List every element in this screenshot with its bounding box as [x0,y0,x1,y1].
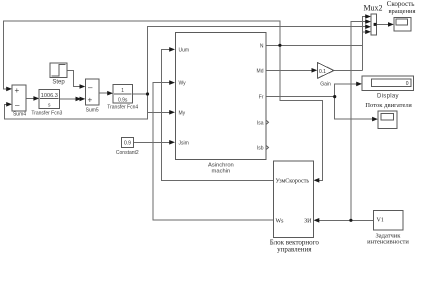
svg-text:0.1: 0.1 [319,69,326,75]
svg-text:управления: управления [277,246,312,254]
svg-text:machin: machin [212,169,231,175]
svg-text:Isb: Isb [257,146,264,152]
wire Mux2 to scope [377,23,389,25]
svg-text:Uum: Uum [179,48,190,54]
sum block Sum4 [12,85,26,111]
transfer fcn TF3 [39,90,60,109]
svg-text:Ws: Ws [276,219,285,225]
svg-text:+: + [15,86,20,95]
scope speed [394,17,411,31]
wire Md to Gain [266,69,312,71]
unconnected out port Isa [266,120,269,125]
machine port labels [179,48,190,147]
svg-text:вращения: вращения [388,8,415,15]
wire Uzm output to Uum [161,49,273,180]
svg-text:1: 1 [121,88,124,94]
wire Constant2 to Jsim [134,141,172,143]
svg-text:+: + [88,96,93,105]
wire TF4 output down-branch to Sum4 minus and My [4,94,147,119]
wire Fr branch down to flux scope [335,97,373,120]
display block [362,76,414,90]
svg-text:–: – [15,101,20,110]
block labels tiny [13,80,399,175]
svg-text:Constant2: Constant2 [116,150,139,156]
svg-text:Gain: Gain [320,82,331,88]
wire branch to mux in4 [362,31,367,33]
sum signs Sum4 [15,83,94,110]
wire Fr output [266,96,335,98]
svg-text:0.9s: 0.9s [118,98,128,104]
svg-text:Fr: Fr [259,95,264,101]
constant block Constant2 [122,137,134,147]
svg-text:интенсивности: интенсивности [367,239,409,246]
vector control block [274,161,314,238]
svg-text:Display: Display [377,94,399,100]
svg-text:0: 0 [406,81,409,87]
svg-text:Step: Step [52,80,65,86]
unconnected out port Isb [266,145,269,150]
wire N to speed input of vector block [280,45,323,180]
wire TransferFcn3 to Sum5 plus [60,98,82,100]
svg-text:–: – [88,83,93,92]
transfer fcn values [41,88,128,109]
wire Ws output to Wy [153,83,274,220]
cyrillic captions [270,0,416,254]
svg-text:Transfer Fcn4: Transfer Fcn4 [107,105,138,111]
svg-text:Скорость: Скорость [387,0,415,8]
ramp block V1 [373,210,403,230]
wire branch to My input [148,111,172,113]
wire TF4 output up to mux input3 [148,27,368,94]
svg-text:Jsim: Jsim [179,141,189,147]
vector block port labels [276,179,384,225]
wire V1 to 3I input [318,219,373,221]
transfer fcn TF4 [113,85,133,104]
svg-text:1006.3: 1006.3 [41,93,58,99]
wire Sum4 to TransferFcn3 [26,97,35,99]
mux output stub [374,23,377,26]
svg-text:ЗИ: ЗИ [304,219,312,225]
svg-text:Isa: Isa [257,121,264,127]
wire Step to Sum5 minus [67,70,81,86]
wire vertical to mux in1 and in4 [362,17,367,71]
svg-text:УзмСкорость: УзмСкорость [276,179,310,185]
svg-text:Md: Md [257,69,264,75]
scope flux [378,111,397,128]
wire N output [266,44,363,46]
step source Step [50,63,67,78]
step icon [52,65,66,77]
svg-text:Поток двигателя: Поток двигателя [365,102,412,109]
wire Sum5 to TransferFcn4 [99,92,109,94]
machine block Asinchron machin [176,33,266,160]
svg-text:0.9: 0.9 [124,141,131,147]
sum block Sum5 [85,79,99,105]
wire Fr branch up to Display [335,84,357,97]
svg-text:N: N [260,44,264,50]
svg-text:Sum5: Sum5 [86,108,99,114]
wire TransferFcn4 output [133,93,148,95]
wire V1 setpoint up to mux in2 [351,22,367,221]
svg-text:Sum4: Sum4 [13,112,26,118]
svg-text:Wy: Wy [179,81,187,87]
svg-text:Mux2: Mux2 [363,4,382,13]
svg-text:My: My [179,111,186,117]
svg-text:Transfer Fcn3: Transfer Fcn3 [31,111,62,117]
svg-text:V1: V1 [377,218,384,224]
arrowheads [6,14,394,222]
wire N feedback loop to Sum4 plus [3,21,280,89]
gain triangle [317,63,334,79]
mux block Mux2 [371,14,377,35]
wire Gain output [334,69,363,71]
